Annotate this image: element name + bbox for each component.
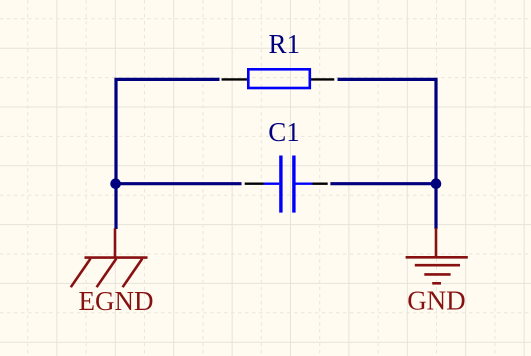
svg-text:GND: GND xyxy=(407,285,466,315)
svg-text:EGND: EGND xyxy=(79,286,154,316)
svg-text:C1: C1 xyxy=(268,117,300,147)
svg-text:R1: R1 xyxy=(269,29,301,59)
